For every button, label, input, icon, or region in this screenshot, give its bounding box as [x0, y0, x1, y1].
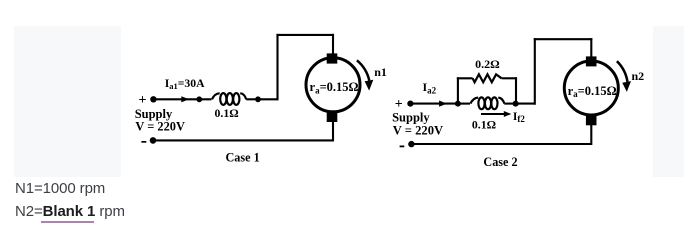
svg-text:Ia2: Ia2 [423, 80, 437, 96]
svg-text:0.1Ω: 0.1Ω [215, 106, 239, 120]
svg-text:Case 2: Case 2 [483, 155, 517, 169]
wire: right riser (Case 2) [534, 38, 536, 105]
wire: junction to right riser (Case 2) [516, 103, 535, 105]
rotation arrow n2 [617, 61, 628, 82]
svg-text:V = 220V: V = 220V [393, 123, 443, 137]
svg-text:0.2Ω: 0.2Ω [475, 57, 500, 71]
blank underline [41, 221, 94, 223]
wire: motor M1 to bottom rail [332, 122, 334, 142]
node: - terminal dot (Case 1) [150, 137, 157, 144]
wire: left riser (Case 1) [276, 34, 278, 101]
wire: drop to motor M1 [332, 34, 334, 56]
svg-text:+: + [139, 93, 147, 108]
wire: + terminal to field coil (Case 1) [153, 98, 211, 100]
svg-text:ra=0.15Ω: ra=0.15Ω [310, 80, 359, 95]
node: + terminal dot (Case 1) [150, 96, 156, 102]
motor M1 top brush [327, 53, 338, 63]
wire: bottom rail (Case 2) [411, 143, 591, 145]
current arrow Ia1 [181, 96, 189, 102]
current arrow Ia2 [439, 101, 447, 107]
svg-text:Case 1: Case 1 [226, 151, 260, 165]
svg-text:V = 220V: V = 220V [135, 120, 185, 134]
wire: coil to node (Case 1) [246, 98, 258, 100]
svg-text:ra=0.15Ω: ra=0.15Ω [568, 84, 617, 99]
node: - terminal dot (Case 2) [408, 141, 414, 147]
supply minus sign (Case 1) [141, 141, 146, 143]
supply minus sign (Case 2) [400, 146, 405, 148]
node after coil (Case 1) [255, 96, 261, 102]
wire: main line into coil (Case 2) [458, 103, 470, 105]
wire: right stub down from resistor branch [515, 77, 517, 103]
motor M2 bottom brush [586, 115, 597, 125]
svg-text:Supply: Supply [135, 107, 173, 121]
wire: left stub up to resistor branch [457, 77, 459, 103]
wire: resistor branch right lead [502, 77, 517, 79]
motor M2 top brush [586, 56, 597, 66]
wire: motor M2 to bottom rail [590, 125, 592, 145]
motor M1 armature circle [306, 58, 360, 112]
wire: resistor branch left lead [457, 77, 473, 79]
svg-text:If2: If2 [513, 111, 525, 124]
arrowhead n2 [622, 81, 631, 92]
wire: top rail (Case 2) [534, 38, 593, 40]
svg-text:n1: n1 [374, 65, 387, 79]
wire: top rail (Case 1) [276, 34, 334, 36]
svg-text:Supply: Supply [392, 110, 430, 124]
wire: drop to motor M2 [590, 38, 592, 58]
answer text N1 [15, 181, 105, 196]
wire: + terminal to junction (Case 2) [410, 103, 458, 105]
rotation arrow n1 [357, 60, 369, 80]
wire: bottom rail (Case 1) [153, 139, 333, 141]
node junction before coil (Case 1) [196, 96, 202, 102]
node: + terminal dot (Case 2) [407, 101, 413, 107]
series field coil 0.1ohm (Case 1) [212, 93, 246, 105]
wire: coil to right junction (Case 2) [504, 103, 515, 105]
node: parallel left junction (Case 2) [455, 101, 461, 107]
resistor 0.2ohm (divertor) [473, 74, 502, 82]
field coil 0.1ohm (Case 2) [471, 97, 505, 109]
svg-text:n2: n2 [632, 69, 645, 83]
arrowhead n1 [365, 80, 374, 91]
svg-text:0.1Ω: 0.1Ω [472, 117, 496, 131]
svg-text:Ia1=30A: Ia1=30A [165, 77, 205, 91]
answer text N2 with blank [15, 204, 125, 219]
current arrow If2 [481, 113, 506, 115]
motor M1 bottom brush [327, 112, 338, 122]
motor M2 armature circle [564, 61, 618, 115]
node: parallel right junction (Case 2) [513, 101, 519, 107]
wire: node to left riser (Case 1) [258, 98, 277, 100]
